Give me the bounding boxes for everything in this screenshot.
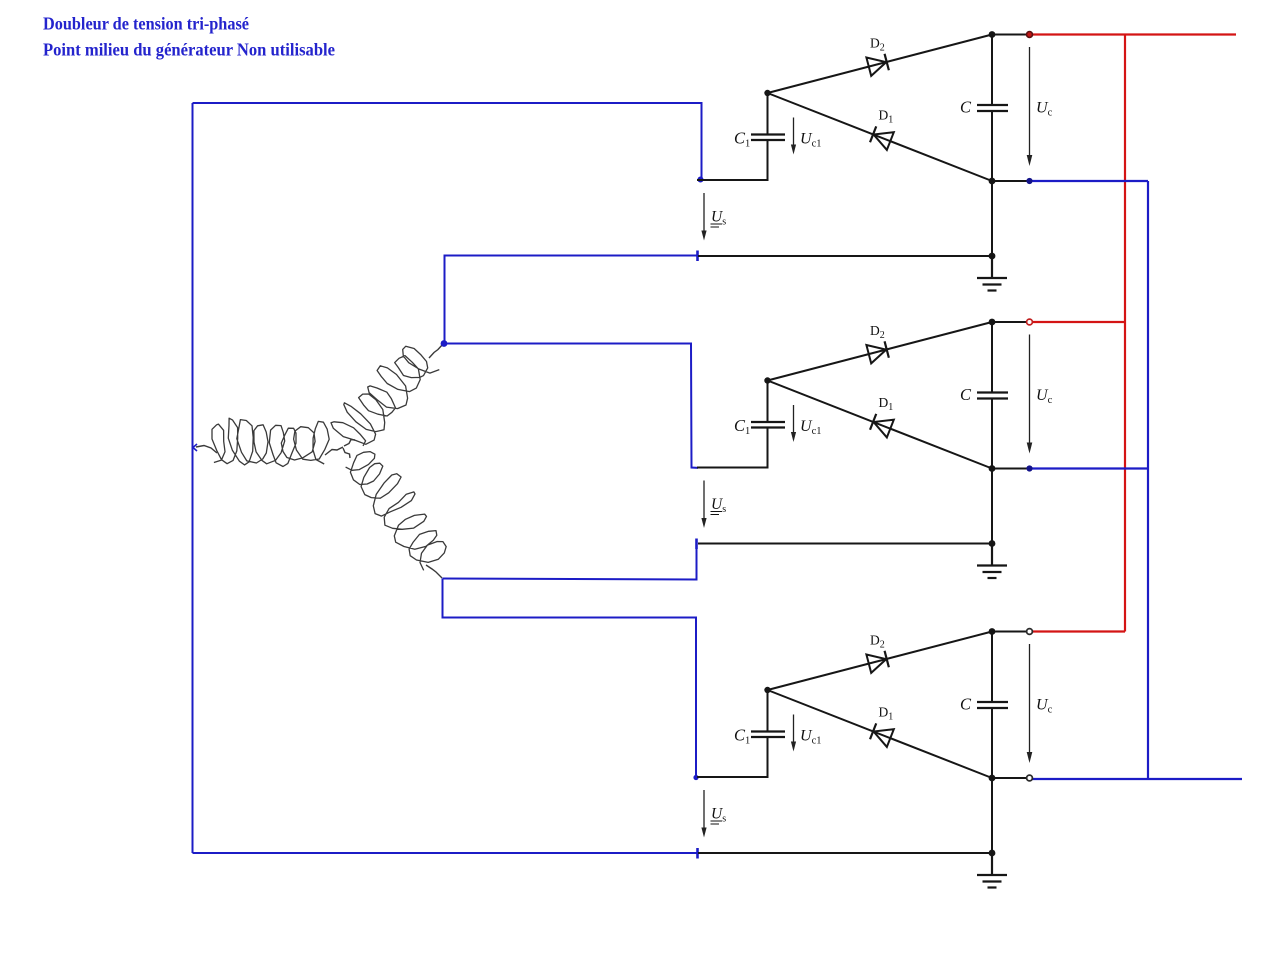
ground (cell 2) bbox=[977, 544, 1007, 579]
wire cell 2 bottom node to output terminal bbox=[992, 468, 1027, 470]
diode D1 (cell 3) bbox=[870, 722, 894, 746]
wire cell 2 top node down to C bbox=[991, 322, 993, 393]
generator winding L2 (upper-right coil) bbox=[331, 346, 439, 446]
wire red output cell 1 bbox=[1033, 33, 1237, 35]
wire cell 1 return line bbox=[698, 255, 992, 257]
wire cell 3 C1 to input terminal bbox=[697, 737, 768, 777]
wire cell 1 top node down to C bbox=[991, 35, 993, 106]
diode D2 (cell 2) bbox=[866, 340, 889, 363]
wire cell 3 anode branch (vertex to top node) bbox=[768, 632, 993, 691]
node cell 2 return tick bbox=[695, 539, 698, 550]
node cell 2 vertex junction bbox=[764, 377, 770, 383]
label U_s underline (cell 3) bbox=[711, 821, 723, 824]
wire blue output bus vertical bbox=[1147, 181, 1149, 779]
wire blue output cell 3 bbox=[1033, 778, 1243, 780]
wire cell 3 bottom node to ground junction bbox=[991, 778, 993, 853]
node cell 1 ground junction bbox=[989, 253, 996, 260]
wire phase 2 right run to cell 2 bbox=[445, 344, 699, 468]
svg-text:Doubleur de tension tri-phasé: Doubleur de tension tri-phasé bbox=[43, 14, 249, 34]
wire phase 3 down run to cell 3 bbox=[443, 579, 697, 779]
wire phase 1 top run to cell 1 bbox=[193, 103, 702, 179]
voltage arrow U_c1 (cell 1) bbox=[791, 118, 796, 155]
wire cell 1 bottom node to ground junction bbox=[991, 181, 993, 256]
wire cell 1 vertex down to C1 bbox=[767, 93, 769, 135]
terminal cell 3 positive output bbox=[1027, 629, 1033, 635]
svg-text:C: C bbox=[960, 695, 972, 714]
voltage arrow U_c1 (cell 3) bbox=[791, 715, 796, 752]
node cell 1 input (blue dot) bbox=[698, 177, 704, 183]
capacitor C1 (cell 3) bbox=[751, 732, 785, 738]
wire cell 3 top node to output terminal bbox=[992, 631, 1027, 633]
wire cell 1 C to bottom node bbox=[991, 111, 993, 181]
node cell 3 top junction bbox=[989, 628, 996, 635]
wire cell 3 return line bbox=[698, 852, 992, 854]
wire phase 3 up run to cell 2 return bbox=[443, 544, 697, 580]
wire lead neutral node to winding L2 bbox=[344, 440, 355, 447]
wire phase 1 terminal tick bbox=[193, 444, 197, 451]
diode D2 (cell 1) bbox=[866, 53, 889, 76]
label U_s underline (cell 1) bbox=[711, 224, 723, 227]
wire cell 2 anode branch (vertex to top node) bbox=[768, 322, 993, 381]
wire cell 1 top node to output terminal bbox=[992, 34, 1027, 36]
wire cell 2 C1 to input terminal bbox=[697, 428, 768, 468]
wire cell 1 bottom node to output terminal bbox=[992, 180, 1027, 182]
voltage arrow U_s (cell 2) bbox=[701, 481, 706, 529]
ground (cell 3) bbox=[977, 853, 1007, 888]
wire lead winding L1 to neutral node bbox=[325, 447, 343, 455]
wire lead winding L3 to phase terminal bbox=[426, 565, 442, 578]
wire red output cell 3 bbox=[1032, 630, 1126, 632]
wire red output bus vertical bbox=[1124, 35, 1126, 632]
voltage arrow U_c (cell 2) bbox=[1027, 335, 1033, 454]
node cell 3 vertex junction bbox=[764, 687, 770, 693]
voltage arrow U_c (cell 3) bbox=[1027, 644, 1033, 763]
diode D1 (cell 1) bbox=[870, 125, 894, 149]
node cell 2 top junction bbox=[989, 319, 996, 326]
wire blue output cell 2 bbox=[1032, 467, 1149, 469]
terminal cell 2 positive output bbox=[1027, 319, 1033, 325]
wire cell 1 anode branch (vertex to top node) bbox=[768, 35, 993, 94]
voltage arrow U_s (cell 1) bbox=[701, 193, 706, 241]
wire cell 3 vertex down to C1 bbox=[767, 690, 769, 732]
terminal cell 1 positive output bbox=[1027, 32, 1033, 38]
node cell 1 bottom junction bbox=[989, 178, 996, 185]
ground (cell 1) bbox=[977, 256, 1007, 291]
wire cell 3 cathode branch (vertex to bottom node) bbox=[768, 690, 993, 778]
label U_s underline (cell 2) bbox=[711, 512, 723, 515]
diode D1 (cell 2) bbox=[870, 413, 894, 437]
wire phase 1 bottom run to cell 3 bbox=[193, 852, 699, 854]
wire cell 2 top node to output terminal bbox=[992, 321, 1027, 323]
node cell 1 return tick bbox=[696, 251, 699, 262]
terminal cell 1 negative output bbox=[1026, 178, 1032, 184]
wire cell 3 top node down to C bbox=[991, 632, 993, 703]
wire blue output cell 1 bbox=[1033, 180, 1149, 182]
wire cell 2 return line bbox=[698, 543, 992, 545]
wire cell 2 cathode branch (vertex to bottom node) bbox=[768, 381, 993, 469]
node cell 1 top junction bbox=[989, 31, 996, 38]
voltage arrow U_s (cell 3) bbox=[701, 790, 706, 838]
svg-text:C: C bbox=[960, 98, 972, 117]
capacitor C1 (cell 2) bbox=[751, 422, 785, 428]
capacitor C1 (cell 1) bbox=[751, 135, 785, 141]
diode D2 (cell 3) bbox=[866, 650, 889, 673]
capacitor C (cell 2) bbox=[977, 393, 1008, 399]
svg-text:C: C bbox=[960, 385, 972, 404]
voltage arrow U_c1 (cell 2) bbox=[791, 405, 796, 442]
generator winding L3 (lower-right coil) bbox=[346, 452, 447, 571]
generator winding L1 (left coil) bbox=[212, 418, 329, 466]
capacitor C (cell 1) bbox=[977, 105, 1008, 111]
wire cell 2 C to bottom node bbox=[991, 399, 993, 469]
node cell 2 bottom junction bbox=[989, 465, 996, 472]
node cell 3 return tick bbox=[696, 848, 699, 859]
wire phase 2 up run to cell 1 return bbox=[445, 256, 698, 344]
node cell 1 vertex junction bbox=[764, 90, 770, 96]
wire cell 3 bottom node to output terminal bbox=[992, 777, 1027, 779]
wire lead neutral node to winding L3 bbox=[343, 448, 350, 458]
node cell 3 input (blue dot) bbox=[693, 775, 698, 780]
wire cell 2 bottom node to ground junction bbox=[991, 469, 993, 544]
wire phase 1 left vertical bus bbox=[192, 103, 194, 853]
wire lead winding L2 to phase terminal bbox=[429, 344, 443, 358]
voltage arrow U_c (cell 1) bbox=[1027, 47, 1033, 166]
node cell 2 ground junction bbox=[989, 540, 996, 547]
wire red output cell 2 bbox=[1032, 321, 1126, 323]
wire cell 2 vertex down to C1 bbox=[767, 381, 769, 423]
node cell 3 ground junction bbox=[989, 850, 996, 857]
wire cell 3 C to bottom node bbox=[991, 708, 993, 778]
terminal cell 2 negative output bbox=[1026, 465, 1032, 471]
svg-text:Point milieu du générateur Non: Point milieu du générateur Non utilisabl… bbox=[43, 40, 335, 60]
node phase 2 terminal bbox=[441, 340, 448, 347]
wire cell 1 C1 to input terminal bbox=[697, 140, 768, 180]
capacitor C (cell 3) bbox=[977, 702, 1008, 708]
terminal cell 3 negative output bbox=[1027, 775, 1033, 781]
wire lead from phase terminal to winding L1 bbox=[196, 446, 217, 454]
node cell 3 bottom junction bbox=[989, 775, 996, 782]
wire cell 1 cathode branch (vertex to bottom node) bbox=[768, 93, 993, 181]
